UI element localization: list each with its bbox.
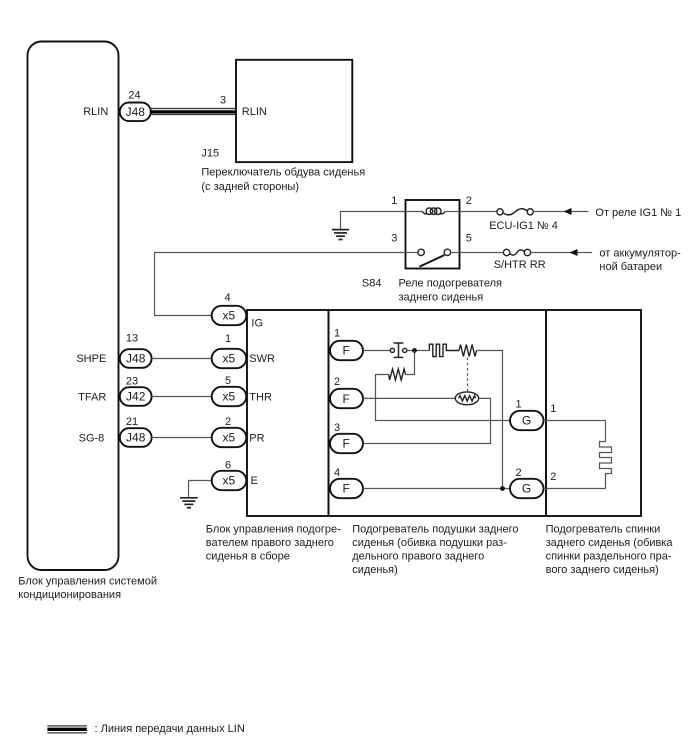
relay S84 box (406, 200, 460, 269)
arrow: from IG1 relay (533, 208, 588, 215)
legend LIN line symbol (47, 726, 86, 733)
label: Переключатель обдува сиденья (с задней стороны) (201, 167, 365, 193)
svg-text:4: 4 (224, 292, 230, 304)
svg-text:F: F (343, 344, 350, 358)
svg-text:SHPE: SHPE (76, 353, 106, 365)
wire G2 to backrest element (544, 488, 606, 490)
svg-text:дельного правого заднего: дельного правого заднего (352, 551, 484, 563)
resistor R-low (389, 369, 406, 380)
svg-text:J42: J42 (126, 390, 146, 404)
seat backrest heater box (546, 310, 641, 516)
svg-text:J15: J15 (201, 147, 219, 159)
svg-text:RLIN: RLIN (83, 106, 108, 118)
svg-text:1: 1 (225, 333, 231, 345)
wire SG-8 row (152, 437, 212, 439)
svg-text:ECU-IG1 № 4: ECU-IG1 № 4 (489, 220, 558, 232)
wire relay pin3 to x5 IG connector (155, 253, 406, 316)
heater control unit box (Блок управления подогревателем) (247, 310, 329, 516)
connector J48 (pin 21) (120, 428, 152, 447)
svg-text:1: 1 (550, 403, 556, 415)
svg-text:x5: x5 (222, 431, 235, 445)
wire junction A down to R-low (406, 351, 415, 375)
svg-text:Реле подогревателя: Реле подогревателя (399, 278, 502, 290)
svg-text:вого заднего сиденья): вого заднего сиденья) (546, 564, 659, 576)
svg-text:5: 5 (466, 233, 472, 245)
resistor R-top (459, 345, 477, 357)
svg-text:ной батареи: ной батареи (599, 261, 662, 273)
svg-text:3: 3 (391, 233, 397, 245)
dashed coupling line (467, 358, 469, 392)
svg-text:5: 5 (225, 375, 231, 387)
LIN bus line (J48 to J15) (151, 109, 236, 115)
svg-text:2: 2 (225, 416, 231, 428)
wire F4 to G2 (363, 488, 510, 490)
svg-text:4: 4 (334, 467, 340, 479)
svg-text:6: 6 (225, 459, 231, 471)
wire F1 to thermostat (363, 350, 390, 352)
svg-text:x5: x5 (222, 474, 235, 488)
svg-text:J48: J48 (126, 352, 146, 366)
label: от аккумуляторной батареи (599, 248, 681, 273)
svg-text:TFAR: TFAR (78, 392, 106, 404)
label: Подогреватель подушки заднего сиденья (352, 523, 518, 576)
relay coil (406, 208, 460, 215)
wire thermistor to F3 (363, 398, 491, 443)
svg-text:Блок управления системой: Блок управления системой (18, 575, 157, 587)
connector F3 (330, 434, 363, 453)
svg-text:(с задней стороны): (с задней стороны) (201, 181, 299, 193)
arrow: from battery (531, 249, 592, 256)
svg-text:G: G (522, 414, 531, 428)
thermistor (temperature sensor) (455, 392, 478, 405)
svg-text:заднего сиденья: заднего сиденья (399, 291, 484, 303)
svg-text:x5: x5 (222, 309, 235, 323)
svg-text:J48: J48 (126, 431, 146, 445)
svg-text:3: 3 (334, 422, 340, 434)
wire R-low to G1 row (376, 375, 511, 421)
label: Блок управления подогревателем правого заднего сиденья в сборе (206, 523, 341, 562)
label: Подогреватель спинки заднего сиденья (546, 523, 674, 576)
svg-text:2: 2 (334, 376, 340, 388)
wire G1 to backrest element (544, 420, 606, 422)
svg-text:Подогреватель спинки: Подогреватель спинки (546, 523, 661, 535)
connector x5 (PR) (212, 428, 247, 447)
svg-text:SWR: SWR (249, 353, 275, 365)
wire SHPE row (152, 358, 212, 360)
connector x5 (THR) (212, 387, 247, 406)
wire F2 to thermistor (363, 397, 455, 399)
J15 seat ventilation switch box (236, 60, 352, 162)
connector G2 (510, 479, 544, 498)
svg-text:13: 13 (126, 333, 138, 345)
connector J48 (pin 13) (120, 349, 152, 368)
svg-text:21: 21 (126, 416, 138, 428)
label: Реле подогревателя заднего сиденья (399, 278, 502, 304)
svg-text:SG-8: SG-8 (79, 432, 105, 444)
wire E to ground (189, 481, 212, 498)
junction A dot (412, 348, 417, 353)
svg-text:24: 24 (128, 90, 140, 102)
svg-text:RLIN: RLIN (242, 106, 267, 118)
svg-text:Подогреватель подушки заднего: Подогреватель подушки заднего (352, 523, 518, 535)
svg-text:PR: PR (249, 432, 264, 444)
svg-text:1: 1 (391, 195, 397, 207)
backrest heater element (meander) (600, 421, 612, 489)
svg-text:1: 1 (334, 328, 340, 340)
svg-text:THR: THR (249, 391, 272, 403)
svg-text:2: 2 (550, 471, 556, 483)
svg-text:IG: IG (251, 318, 263, 330)
connector G1 (510, 411, 544, 430)
svg-text:F: F (343, 437, 350, 451)
svg-text:G: G (522, 482, 531, 496)
svg-text:Блок управления подогре-: Блок управления подогре- (206, 523, 341, 535)
connector F1 (330, 341, 363, 360)
svg-text:2: 2 (516, 467, 522, 479)
svg-text:J48: J48 (126, 105, 146, 119)
wire TFAR row (152, 396, 212, 398)
ground (E) (180, 498, 198, 508)
svg-text:F: F (343, 392, 350, 406)
thermostat contact circle left (390, 348, 394, 352)
svg-text:3: 3 (220, 94, 226, 106)
thermostat (bimetal bar) (394, 343, 404, 357)
svg-text:x5: x5 (222, 390, 235, 404)
connector x5 (IG) (212, 306, 247, 325)
junction B dot (500, 486, 505, 491)
svg-text:1: 1 (516, 398, 522, 410)
svg-text:От реле IG1 № 1: От реле IG1 № 1 (595, 207, 681, 219)
wire to junction A (407, 350, 430, 352)
svg-text:сиденья): сиденья) (352, 564, 398, 576)
connector J42 (pin 23) (120, 387, 152, 406)
heater element (square wave) (429, 344, 459, 356)
A/C control unit (Блок управления системой кондиционирования) (28, 42, 119, 571)
svg-text:x5: x5 (222, 352, 235, 366)
svg-text:вателем правого заднего: вателем правого заднего (206, 537, 334, 549)
svg-text:сиденья в сборе: сиденья в сборе (206, 551, 290, 563)
connector F4 (330, 479, 363, 498)
connector F2 (330, 389, 363, 408)
svg-text:E: E (251, 475, 258, 487)
fuse S/HTR RR (460, 249, 531, 255)
wire relay pin1 to ground (341, 212, 406, 230)
svg-text:F: F (343, 482, 350, 496)
svg-text:23: 23 (126, 375, 138, 387)
svg-text:спинки раздельного пра-: спинки раздельного пра- (546, 551, 672, 563)
connector x5 (E) (212, 471, 247, 490)
svg-text:заднего сиденья (обивка: заднего сиденья (обивка (546, 537, 674, 549)
connector x5 (SWR) (212, 349, 247, 368)
svg-text:Переключатель обдува сиденья: Переключатель обдува сиденья (201, 167, 365, 179)
svg-text:2: 2 (466, 195, 472, 207)
svg-text:сиденья (обивка подушки раз-: сиденья (обивка подушки раз- (352, 537, 507, 549)
connector J48 (pin 24) (120, 103, 151, 122)
wire resistor to right drop (477, 351, 503, 489)
svg-text:S/HTR RR: S/HTR RR (494, 259, 546, 271)
fuse ECU-IG1 No4 (460, 209, 534, 215)
ground (relay pin 1) (332, 230, 349, 240)
svg-text:: Линия передачи данных LIN: : Линия передачи данных LIN (95, 723, 245, 735)
svg-text:S84: S84 (362, 278, 382, 290)
label: Блок управления системой кондиционирования (18, 575, 157, 601)
svg-text:от аккумулятор-: от аккумулятор- (599, 248, 681, 260)
svg-text:кондиционирования: кондиционирования (18, 589, 121, 601)
relay switch contacts (406, 249, 460, 266)
thermostat contact circle right (403, 348, 407, 352)
seat cushion heater box (329, 310, 547, 516)
